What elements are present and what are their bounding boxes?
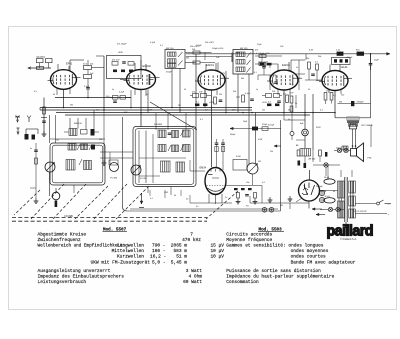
svg-text:0,5M: 0,5M <box>148 110 153 112</box>
svg-text:4700pF: 4700pF <box>357 101 365 103</box>
dial diagonal far left <box>14 190 40 215</box>
parts right of V4 <box>308 62 311 69</box>
parts in box <box>334 59 337 62</box>
bus junction dots <box>63 107 65 109</box>
resistor r1 <box>259 55 266 58</box>
tube V1 EF41 <box>48 62 81 90</box>
tube V7 AZ41 <box>299 180 320 201</box>
wire <box>200 62 215 64</box>
af cluster 2 <box>237 193 240 199</box>
IF2 trimmer arrows <box>247 53 251 58</box>
tube V6 EM34 <box>200 167 227 195</box>
svg-text:Moyenne fréquence: Moyenne fréquence <box>226 237 272 243</box>
box B row 1 <box>158 130 166 138</box>
box B interior wires <box>139 157 186 159</box>
extra grounds <box>269 197 271 200</box>
svg-text:0,2: 0,2 <box>205 110 208 112</box>
tube V2 ECH42 <box>124 64 160 90</box>
svg-text:5,0 -: 5,0 - <box>152 259 166 265</box>
V5 lead down <box>334 91 336 118</box>
svg-text:Impédance du haut-parleur supp: Impédance du haut-parleur supplémentaire <box>226 274 334 280</box>
svg-text:6,3V: 6,3V <box>309 50 314 52</box>
speaker <box>351 143 364 162</box>
trimmer boxes <box>215 147 218 152</box>
box B row 1 caps <box>168 132 172 134</box>
wire <box>263 68 265 75</box>
wire <box>258 63 260 65</box>
bandfilter box <box>107 56 142 79</box>
dial diagonal right <box>206 191 238 219</box>
svg-text:0,1μF: 0,1μF <box>119 92 125 94</box>
svg-text:50μF: 50μF <box>374 60 380 62</box>
svg-text:1M: 1M <box>219 94 222 96</box>
output transformer <box>347 117 359 126</box>
input filter parts <box>25 134 29 140</box>
decoupling cap <box>370 54 372 63</box>
transformer core <box>344 177 346 222</box>
svg-text:Mittelwellen: Mittelwellen <box>112 248 145 254</box>
svg-text:47k: 47k <box>255 50 258 52</box>
wire vertical long <box>195 54 197 130</box>
svg-text:470pF: 470pF <box>262 124 268 126</box>
wire <box>87 89 89 98</box>
box B bottom leads <box>147 187 149 194</box>
svg-text:50k ±10%: 50k ±10% <box>190 46 199 48</box>
svg-text:~: ~ <box>388 203 390 207</box>
wire <box>96 55 104 57</box>
IF1 leads <box>171 69 173 108</box>
wire <box>87 60 89 66</box>
ground symbol <box>43 131 45 134</box>
ground marks <box>237 199 239 202</box>
resistor vertical below V4 <box>286 95 289 103</box>
af cluster <box>234 188 238 190</box>
mains lead 1 <box>355 203 376 205</box>
resistor vertical <box>214 97 217 104</box>
svg-text:500pF: 500pF <box>230 134 236 136</box>
svg-text:0,5M: 0,5M <box>236 156 241 158</box>
V4 lead down <box>283 90 285 113</box>
svg-text:0,1: 0,1 <box>196 102 199 104</box>
svg-text:470 kHz: 470 kHz <box>182 237 201 243</box>
svg-text:0,5M: 0,5M <box>258 139 263 141</box>
svg-text:0,1: 0,1 <box>290 84 293 86</box>
svg-text:Impedanz des Einbaulautspreche: Impedanz des Einbaulautsprechers <box>38 274 125 280</box>
svg-text:25k: 25k <box>270 151 273 153</box>
V3 anode lead <box>217 63 219 73</box>
svg-text:2065 m: 2065 m <box>171 243 188 249</box>
svg-text:FO 6M: FO 6M <box>140 178 147 180</box>
left box A feeds <box>35 143 37 198</box>
enclosure left side <box>121 117 123 206</box>
box B leads <box>155 113 157 130</box>
dial diagonal 1 <box>53 184 86 219</box>
pilot lamp 1 <box>328 207 332 211</box>
wire <box>92 67 105 69</box>
V3 top stubs <box>205 64 207 70</box>
pot box <box>109 160 118 165</box>
svg-text:Gammes et sensibilité: ondes l: Gammes et sensibilité: ondes longues <box>226 243 324 249</box>
svg-text:EL41: EL41 <box>342 65 349 69</box>
svg-text:paillard: paillard <box>327 223 373 239</box>
box A row 3 <box>66 160 75 171</box>
filter choke <box>300 149 311 157</box>
wire vertical right of V1 <box>103 56 105 110</box>
svg-text:790 -: 790 - <box>152 243 166 249</box>
svg-text:FO 6M: FO 6M <box>111 178 118 180</box>
resistor below V4 b <box>274 94 280 98</box>
V1 top stubs <box>57 64 59 70</box>
svg-text:0,1: 0,1 <box>96 110 99 112</box>
wire <box>130 90 132 108</box>
electrolytic cap <box>302 129 309 136</box>
cap below V2 <box>113 100 117 102</box>
wire <box>255 63 278 65</box>
svg-text:0,1: 0,1 <box>320 110 323 112</box>
box A leads top <box>69 118 71 129</box>
coil box A inner <box>52 145 103 183</box>
svg-text:UKW: UKW <box>118 52 123 54</box>
svg-text:MF 155: MF 155 <box>240 48 248 50</box>
svg-text:±10%: ±10% <box>209 102 214 104</box>
V1 cathode lead <box>63 89 65 107</box>
grid network box <box>332 58 351 65</box>
svg-text:Langwellen: Langwellen <box>117 243 144 249</box>
rect top lead <box>309 170 311 181</box>
svg-text:47k 100pF: 47k 100pF <box>117 44 127 46</box>
wire <box>291 103 293 132</box>
psu caps <box>319 190 324 195</box>
long diagonal wire <box>150 102 197 130</box>
transformer bottom arrow <box>345 222 347 228</box>
dial diagonal 2 <box>75 186 108 219</box>
svg-text:1n: 1n <box>296 67 298 69</box>
dial lamp circle <box>337 148 341 152</box>
AZ41 leads <box>308 201 310 209</box>
box A row 2 trimmers <box>77 145 80 151</box>
svg-text:1n: 1n <box>288 119 290 121</box>
svg-text:Abgestimmte Kreise: Abgestimmte Kreise <box>38 231 87 237</box>
svg-text:60 Watt: 60 Watt <box>183 279 202 285</box>
svg-text:50 kΩ: 50 kΩ <box>325 196 331 198</box>
svg-text:Puissance de sortie sans disto: Puissance de sortie sans distorsion <box>226 268 321 274</box>
dial diagonal 3 <box>94 184 127 219</box>
dial cord dashed <box>12 216 207 218</box>
svg-text:0,05μF: 0,05μF <box>268 124 275 126</box>
second row below V3 <box>195 104 199 107</box>
dial drive pot <box>52 192 60 200</box>
svg-text:ondes moyennes: ondes moyennes <box>291 248 329 254</box>
resistor in box <box>112 62 118 66</box>
V3 lead down 2 <box>204 90 206 108</box>
svg-text:© Paillard S.A.: © Paillard S.A. <box>340 237 357 241</box>
dipole symbol <box>27 116 31 123</box>
svg-text:ondes courtes: ondes courtes <box>291 254 326 260</box>
supply wire <box>304 94 306 129</box>
between boxes wires <box>100 151 133 153</box>
primary winding <box>338 181 345 198</box>
wire tick <box>41 117 47 119</box>
dial diagonal 4 <box>116 186 149 219</box>
svg-text:1M: 1M <box>339 101 342 103</box>
bypass resistor V5 <box>330 93 333 101</box>
svg-text:EF41: EF41 <box>66 62 73 66</box>
svg-text:100pF ±10%: 100pF ±10% <box>212 48 224 50</box>
tube V5 EL41 <box>319 65 352 90</box>
resistor on grid lead <box>37 67 44 70</box>
svg-text:51 m: 51 m <box>176 254 187 260</box>
box B row 2 <box>158 145 166 152</box>
tuning capacitor 2 <box>131 165 141 175</box>
more wires between IF2 V4 <box>257 75 259 80</box>
svg-text:350V: 350V <box>316 127 321 129</box>
svg-text:EM34: EM34 <box>200 167 207 170</box>
wire <box>255 55 282 57</box>
svg-text:5n: 5n <box>225 197 227 199</box>
arrow to lamps 2 <box>316 213 325 215</box>
cap in box <box>122 61 126 63</box>
cap below V4 <box>277 100 281 102</box>
svg-text:1M: 1M <box>232 110 235 112</box>
wire top from IF1 <box>185 52 212 54</box>
mains switch <box>377 202 380 205</box>
wire rail to OT <box>370 54 372 118</box>
box B interior verticals <box>138 131 140 184</box>
wire stub set A <box>204 53 206 61</box>
svg-text:30k: 30k <box>241 78 244 80</box>
resistor below V3 <box>193 94 199 98</box>
wire <box>43 98 45 134</box>
svg-text:Wellenbereich und Empfindlichk: Wellenbereich und Empfindlichkeit: <box>38 244 126 249</box>
svg-text:50k: 50k <box>90 64 93 66</box>
feedback line <box>338 103 371 105</box>
svg-text:25k: 25k <box>262 110 265 112</box>
IF1 trimmer arrows <box>178 52 183 57</box>
component on arrow <box>252 127 258 131</box>
svg-text:1M: 1M <box>258 161 261 163</box>
speaker field coil <box>342 146 348 150</box>
V1 anode lead <box>69 60 71 72</box>
svg-text:Bande FM avec adaptateur: Bande FM avec adaptateur <box>291 259 356 265</box>
ground symbol left <box>17 128 20 135</box>
switch contact box <box>46 59 53 63</box>
antenna symbol <box>15 116 20 123</box>
wire over box A <box>50 138 105 140</box>
dial diagonal 0 <box>31 184 64 219</box>
EM34 leads bottom <box>208 194 210 203</box>
supply wire b <box>304 136 306 148</box>
svg-text:1n: 1n <box>112 89 114 91</box>
svg-text:50 kΩ: 50 kΩ <box>324 177 330 179</box>
top right extra <box>305 54 307 60</box>
enclosure bottom rail <box>127 210 280 212</box>
resistor input <box>43 107 46 114</box>
resistor below V3 b <box>201 94 207 98</box>
svg-text:50: 50 <box>174 195 176 197</box>
bus AVC 2 <box>40 109 252 111</box>
rectifier to transformer <box>320 190 338 192</box>
wire V5 to OT <box>335 117 347 119</box>
svg-text:10 μV: 10 μV <box>210 254 224 260</box>
svg-text:Leistungsverbrauch: Leistungsverbrauch <box>38 279 87 285</box>
svg-text:2M: 2M <box>186 58 189 60</box>
resistor 50k <box>84 66 92 70</box>
filament winding oval 1 <box>324 179 335 184</box>
top line drops <box>231 54 233 62</box>
wire <box>190 95 193 97</box>
junction dot <box>370 53 372 55</box>
arrow lead left <box>230 127 281 130</box>
tube V3 EAF41 <box>195 63 229 90</box>
svg-text:MW-LW: MW-LW <box>74 123 83 125</box>
lamp near speaker <box>324 163 328 167</box>
bus left bend <box>39 108 41 111</box>
box A gang lead <box>49 172 51 196</box>
component row above V4 <box>260 63 265 66</box>
arrow lead left 2 <box>274 145 281 147</box>
svg-text:0,1μF: 0,1μF <box>84 86 90 88</box>
V5 top stubs <box>329 65 331 72</box>
AZ41 internals <box>304 184 306 190</box>
svg-text:583 m: 583 m <box>173 248 187 254</box>
IF transformer MF155 can <box>233 50 253 75</box>
svg-text:0,1μF: 0,1μF <box>245 93 251 95</box>
svg-text:±10%: ±10% <box>262 102 267 104</box>
resistor psu <box>297 150 300 156</box>
top supply rail <box>186 53 390 55</box>
svg-text:50k: 50k <box>233 91 236 93</box>
svg-text:25pF: 25pF <box>257 44 262 46</box>
svg-text:MW: MW <box>99 139 103 141</box>
V2 top stubs <box>134 63 136 70</box>
wire stub set B <box>258 74 276 76</box>
output transformer base box <box>349 125 356 129</box>
second top line <box>186 56 232 58</box>
capacitor <box>86 87 90 89</box>
coil box B inner <box>135 129 194 185</box>
coil box A outer <box>50 143 105 185</box>
svg-text:110 125 220 245: 110 125 220 245 <box>353 211 366 213</box>
resistor r2 <box>259 63 266 66</box>
svg-text:Mod. 5507: Mod. 5507 <box>103 227 127 232</box>
capacitor input <box>42 120 46 122</box>
svg-text:40: 40 <box>53 94 55 96</box>
svg-text:50k: 50k <box>318 56 321 58</box>
resistor below V2 <box>113 96 119 100</box>
svg-text:0,3: 0,3 <box>268 102 271 104</box>
V2 lead down 2 <box>147 90 149 114</box>
wire <box>49 172 51 180</box>
svg-text:50k ±10%: 50k ±10% <box>205 42 214 44</box>
switch contact box UKW <box>37 59 44 63</box>
parts near psu <box>298 161 301 166</box>
resistor <box>84 75 92 79</box>
svg-text:15 μV: 15 μV <box>210 243 224 249</box>
svg-text:1n: 1n <box>256 89 258 91</box>
svg-text:0,1μF: 0,1μF <box>150 42 156 44</box>
wire <box>262 95 266 97</box>
svg-text:4 Ohm: 4 Ohm <box>188 274 202 280</box>
svg-text:5k: 5k <box>184 89 186 91</box>
svg-text:7: 7 <box>190 231 193 237</box>
speaker leads <box>352 129 354 149</box>
svg-text:0,5: 0,5 <box>34 91 37 93</box>
svg-text:Zwischenfrequenz: Zwischenfrequenz <box>38 237 82 243</box>
resistor stack <box>290 96 293 103</box>
wire <box>252 174 254 185</box>
svg-text:0,1: 0,1 <box>254 72 257 74</box>
svg-text:10 μV: 10 μV <box>210 248 224 254</box>
component row <box>113 70 117 73</box>
resistor pair on rail <box>337 52 344 56</box>
box A left verticals <box>49 115 51 143</box>
resistor top <box>193 51 200 54</box>
feedback cap <box>351 101 354 106</box>
cap v3 <box>219 99 223 101</box>
V2 lead down <box>140 90 142 127</box>
coil box B outer <box>133 127 196 187</box>
bottom mid wires <box>190 202 232 204</box>
V5 lead left <box>316 80 322 82</box>
mains lead 2 <box>355 213 387 215</box>
svg-text:150: 150 <box>341 95 344 97</box>
pilot lamp 2 <box>336 207 340 211</box>
bus 3 <box>56 112 335 114</box>
cathode resistor V5 <box>324 93 327 101</box>
resistor below V4 <box>266 94 272 98</box>
V4 top stubs <box>277 64 279 71</box>
wire <box>39 63 41 68</box>
wire right vert <box>370 125 372 148</box>
V4 anode lead <box>290 60 292 72</box>
IF transformer MF154 can <box>165 50 185 69</box>
svg-text:UK 87,5: UK 87,5 <box>37 57 46 59</box>
ground arrow into chassis <box>141 193 143 204</box>
bus AVC 1 <box>40 107 252 109</box>
small lamp <box>290 132 294 136</box>
wire <box>325 100 327 104</box>
svg-text:186 -: 186 - <box>152 248 166 254</box>
grid lead arrow into V1 <box>28 67 51 69</box>
wire <box>226 185 262 187</box>
EM34 trimmers above <box>215 142 219 144</box>
svg-text:Ausgangsleistung unverzerrt: Ausgangsleistung unverzerrt <box>38 268 111 274</box>
transformer top lead <box>340 170 342 177</box>
svg-text:2M: 2M <box>178 105 181 107</box>
svg-text:ECH42: ECH42 <box>143 64 152 68</box>
svg-text:25k: 25k <box>306 58 309 60</box>
cap c2 <box>262 66 266 68</box>
svg-text:FO-6MC: FO-6MC <box>65 216 74 218</box>
svg-text:~: ~ <box>388 213 390 217</box>
IF2 leads <box>237 74 239 113</box>
svg-text:UKW mit FM-Zusatzgerät: UKW mit FM-Zusatzgerät <box>91 259 151 265</box>
near transformer wires <box>313 164 340 166</box>
wire <box>48 63 50 68</box>
box B row 3 <box>161 161 171 172</box>
resistor below V2 b <box>120 96 126 100</box>
svg-text:MF 154: MF 154 <box>166 48 174 50</box>
IF1 primary coil <box>168 52 177 56</box>
IF2 lead resistors <box>242 95 245 102</box>
svg-text:0,1: 0,1 <box>200 119 203 121</box>
volume potentiometer <box>247 163 258 174</box>
svg-text:0,1: 0,1 <box>150 198 153 200</box>
resistor mid <box>193 61 200 64</box>
svg-text:50k: 50k <box>272 91 275 93</box>
supply wire 2 <box>312 94 314 150</box>
wire <box>236 52 240 54</box>
